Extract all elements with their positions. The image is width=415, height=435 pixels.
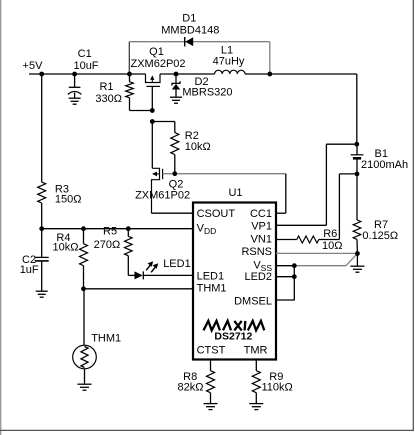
svg-text:RSNS: RSNS <box>241 246 272 258</box>
svg-text:1uF: 1uF <box>20 264 39 276</box>
svg-text:MMBD4148: MMBD4148 <box>161 25 219 37</box>
svg-text:U1: U1 <box>228 187 242 199</box>
wire VSS net <box>276 254 357 266</box>
wire VP1 <box>276 144 357 225</box>
wire LED2 stub <box>276 276 294 278</box>
svg-text:LED1: LED1 <box>197 270 225 282</box>
svg-text:CTST: CTST <box>197 345 226 357</box>
label C2 <box>20 254 39 276</box>
label LED1 <box>163 258 191 270</box>
battery B1 <box>351 144 364 174</box>
pin RSNS <box>241 246 272 258</box>
resistor R1 <box>126 74 153 111</box>
pin DMSEL <box>234 295 272 307</box>
wire LED1 to IC <box>143 274 193 276</box>
transistor Q1 <box>146 74 161 111</box>
svg-text:R5: R5 <box>103 226 117 238</box>
label D2 <box>182 76 232 98</box>
svg-text:10kΩ: 10kΩ <box>53 242 79 254</box>
ground (R8) <box>204 404 218 410</box>
svg-text:D1: D1 <box>182 12 196 24</box>
svg-text:330Ω: 330Ω <box>95 93 122 105</box>
capacitor C2 <box>35 229 49 291</box>
label B1 <box>361 148 408 171</box>
svg-text:ZXM62P02: ZXM62P02 <box>130 58 185 70</box>
label R6 <box>322 228 342 252</box>
svg-text:LED2: LED2 <box>244 271 272 283</box>
LED LED1 <box>135 261 159 279</box>
label L1 <box>213 45 245 68</box>
svg-text:ZXM61P02: ZXM61P02 <box>135 189 190 201</box>
pin VDD <box>197 223 217 237</box>
ground (C2) <box>36 291 48 297</box>
resistor R9 <box>252 360 260 404</box>
svg-text:VP1: VP1 <box>251 221 272 233</box>
resistor R2 <box>152 122 179 174</box>
label R4 <box>53 232 79 254</box>
ground (R7/RSNS) <box>350 254 364 273</box>
wire VDD net <box>42 228 193 230</box>
resistor R5 <box>125 229 135 276</box>
pin TMR <box>244 345 268 357</box>
wire Q2 gate / R2 / CC1 net (gray) <box>163 173 286 175</box>
svg-text:DMSEL: DMSEL <box>234 295 272 307</box>
label R5 <box>94 226 121 251</box>
IC U1 DS2712 <box>193 203 276 360</box>
svg-text:0.125Ω: 0.125Ω <box>362 230 398 242</box>
label R2 <box>185 130 211 153</box>
label R9 <box>262 371 293 393</box>
svg-text:C1: C1 <box>78 48 92 60</box>
svg-text:270Ω: 270Ω <box>94 239 121 251</box>
svg-text:R1: R1 <box>99 81 113 93</box>
svg-text:10Ω: 10Ω <box>322 240 342 252</box>
label R1 <box>95 81 122 105</box>
svg-text:82kΩ: 82kΩ <box>178 381 204 393</box>
pin LED2 <box>244 271 272 283</box>
wire CC1 <box>276 174 286 214</box>
svg-text:LED1: LED1 <box>163 258 191 270</box>
wire THM1 net <box>84 289 194 345</box>
svg-text:VN1: VN1 <box>251 234 272 246</box>
wire D1 top net <box>129 42 269 74</box>
svg-text:DS2712: DS2712 <box>214 330 252 342</box>
pin CSOUT <box>197 208 236 220</box>
pin CTST <box>197 345 226 357</box>
diode D1 <box>185 37 194 47</box>
resistor R4 <box>80 229 88 289</box>
diode D2 (Schottky) <box>172 74 180 97</box>
ground (R9) <box>249 404 263 410</box>
wire RSNS (gray) <box>276 252 357 254</box>
label R3 <box>55 184 82 206</box>
label R8 <box>178 371 204 393</box>
label R7 <box>362 219 398 242</box>
label D1 <box>161 12 219 36</box>
svg-text:TMR: TMR <box>244 345 268 357</box>
resistor R8 <box>207 360 215 404</box>
svg-text:10uF: 10uF <box>73 60 98 72</box>
wire +5V rail <box>29 74 357 144</box>
label DS2712 <box>214 330 252 342</box>
svg-text:R6: R6 <box>323 228 337 240</box>
wire VN1 + resistor R6 <box>276 174 357 243</box>
resistor R3 <box>38 74 46 229</box>
svg-text:THM1: THM1 <box>197 283 227 295</box>
thermistor THM1 <box>73 345 97 384</box>
ground (C1) <box>69 98 81 104</box>
wire DMSEL stub <box>276 266 295 300</box>
svg-text:MBRS320: MBRS320 <box>182 87 232 99</box>
label Q2 <box>135 179 190 202</box>
svg-text:Q1: Q1 <box>149 46 164 58</box>
inductor L1 <box>215 70 245 74</box>
logo MAXIM <box>204 321 265 331</box>
transistor Q2 <box>152 122 163 214</box>
pin THM1 <box>197 283 227 295</box>
node +5V label <box>23 60 44 72</box>
resistor R7 <box>353 174 361 254</box>
pin VN1 <box>251 234 272 246</box>
svg-text:2100mAh: 2100mAh <box>361 159 408 171</box>
svg-text:THM1: THM1 <box>91 333 121 345</box>
ground (D2) <box>170 97 182 103</box>
svg-text:10kΩ: 10kΩ <box>185 141 211 153</box>
label Q1 <box>130 46 185 70</box>
capacitor C1 <box>68 74 82 98</box>
svg-text:CC1: CC1 <box>250 208 272 220</box>
pin LED1 <box>197 270 225 282</box>
label C1 <box>73 48 98 72</box>
svg-text:150Ω: 150Ω <box>55 194 82 206</box>
svg-text:47uHy: 47uHy <box>213 55 245 67</box>
label THM1 <box>91 333 121 345</box>
svg-text:CSOUT: CSOUT <box>197 208 236 220</box>
pin VP1 <box>251 221 272 233</box>
pin VSS <box>253 259 272 273</box>
wire CSOUT <box>152 212 194 214</box>
pin CC1 <box>250 208 272 220</box>
ground (THM1) <box>78 384 92 390</box>
svg-text:+5V: +5V <box>23 60 44 72</box>
label U1 <box>228 187 242 199</box>
svg-text:110kΩ: 110kΩ <box>262 381 293 393</box>
